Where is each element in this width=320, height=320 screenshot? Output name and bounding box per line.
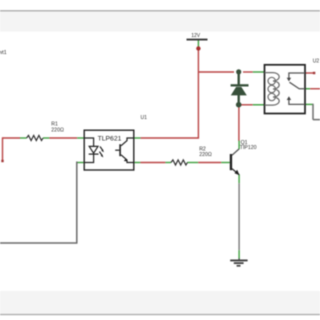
svg-text:220Ω: 220Ω — [199, 152, 212, 158]
svg-text:R1: R1 — [51, 122, 58, 128]
svg-text:U1: U1 — [141, 115, 148, 121]
svg-text:wt1: wt1 — [0, 50, 7, 56]
svg-text:TLP621: TLP621 — [98, 136, 122, 143]
svg-text:TIP120: TIP120 — [240, 145, 257, 151]
svg-text:220Ω: 220Ω — [51, 128, 64, 134]
svg-text:12V: 12V — [191, 33, 201, 39]
svg-text:U2: U2 — [313, 58, 320, 64]
